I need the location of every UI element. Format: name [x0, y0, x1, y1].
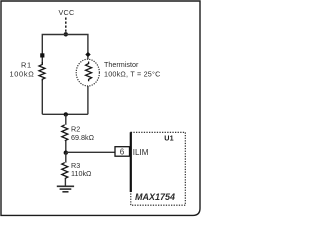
svg-text:100kΩ, T = 25°C: 100kΩ, T = 25°C — [104, 70, 160, 79]
node junction dot top rail — [64, 32, 68, 36]
label R2 value — [71, 124, 95, 142]
node tap dot R1 branch — [40, 53, 44, 57]
svg-text:VCC: VCC — [58, 8, 74, 17]
wire R3 top lead — [65, 153, 67, 163]
label Thermistor value — [104, 60, 160, 78]
svg-text:6: 6 — [120, 147, 125, 156]
pin 6 box — [115, 147, 130, 157]
node junction dot ILIM tap — [64, 151, 68, 155]
svg-text:100kΩ: 100kΩ — [9, 70, 34, 79]
svg-text:ILIM: ILIM — [133, 148, 149, 157]
resistor R2 — [62, 125, 68, 141]
ground — [57, 186, 74, 192]
wire thermistor bottom — [87, 86, 89, 114]
resistor R1 — [38, 62, 46, 81]
thermistor RT circle — [76, 59, 99, 86]
wire VCC dashed drop — [65, 18, 67, 34]
wire R2 bottom lead — [65, 141, 67, 153]
wire bottom rail — [42, 113, 88, 115]
node arrow dot thermistor branch — [85, 52, 90, 57]
svg-text:69.8kΩ: 69.8kΩ — [71, 133, 95, 142]
thermistor element zigzag — [86, 62, 92, 82]
svg-text:Thermistor: Thermistor — [104, 60, 139, 69]
svg-text:MAX1754: MAX1754 — [135, 192, 175, 202]
label R3 value — [71, 161, 92, 178]
wire top rail — [42, 35, 88, 115]
wire to ILIM pin — [66, 151, 115, 153]
resistor R3 — [62, 163, 68, 179]
node junction dot bottom rail — [64, 112, 68, 116]
svg-text:U1: U1 — [164, 133, 174, 142]
wire R2 top lead — [65, 114, 67, 124]
svg-text:110kΩ: 110kΩ — [71, 169, 92, 178]
svg-text:R1: R1 — [21, 61, 32, 70]
label R1 value — [9, 61, 34, 79]
IC U1 box — [131, 132, 186, 205]
wire R3 to ground — [64, 179, 66, 187]
border frame — [1, 1, 200, 215]
